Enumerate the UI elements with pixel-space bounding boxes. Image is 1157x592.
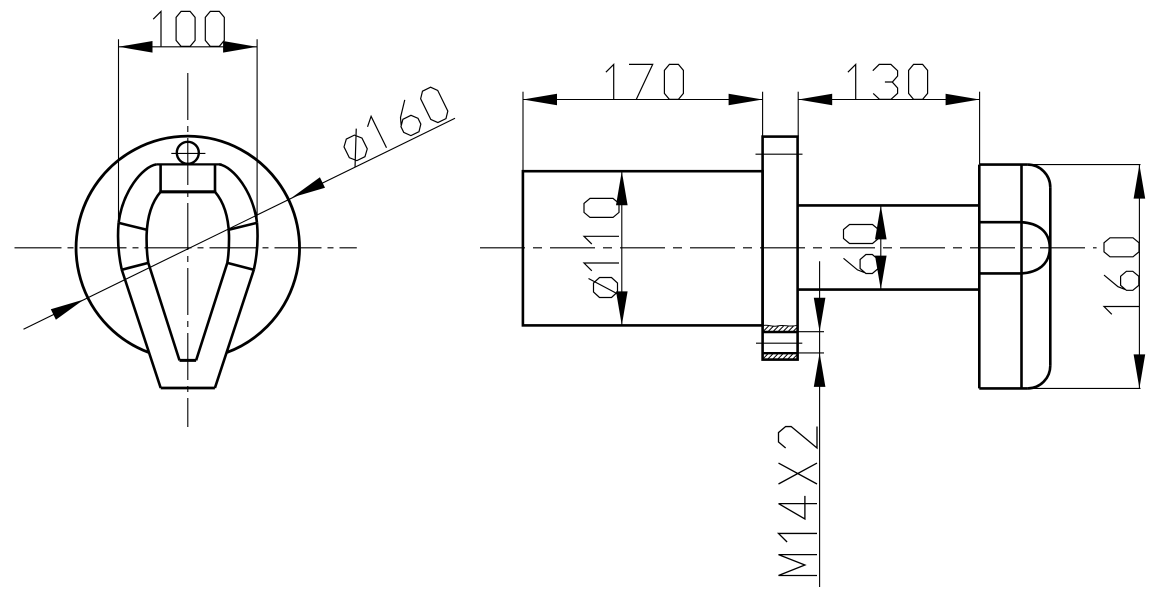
grip notch lower-left bbox=[122, 263, 148, 270]
end piece bottom-right corner arc bbox=[1028, 366, 1051, 389]
end piece top-right corner arc bbox=[1028, 165, 1051, 188]
dimension text 130 bbox=[848, 64, 856, 99]
dimension 60 bottom arrow bbox=[875, 256, 887, 290]
dimension 170 right extension line bbox=[762, 92, 764, 137]
dimension 100 left arrow bbox=[119, 41, 153, 53]
dimension text 60 bbox=[844, 255, 879, 274]
dimension 160 top arrow bbox=[1134, 165, 1146, 199]
grip slot end arc bbox=[1022, 222, 1050, 273]
dimension 170 right arrow bbox=[729, 94, 763, 106]
handle outer right lower side bbox=[215, 270, 254, 389]
dimension 170 line bbox=[523, 99, 763, 101]
grip notch lower-right bbox=[227, 263, 253, 270]
dimension 130 line bbox=[798, 99, 979, 101]
dimension 160 bottom extension line bbox=[1031, 387, 1141, 389]
dimension text 160 bbox=[1104, 307, 1139, 315]
circle Ø160 outline bbox=[76, 136, 299, 352]
thread hole bottom line bbox=[763, 352, 798, 354]
handle inner contour right bbox=[196, 192, 229, 361]
dimension 60 line bbox=[880, 205, 882, 289]
end piece inner line bbox=[1020, 165, 1023, 389]
dimension Ø160 arrow lower bbox=[51, 300, 84, 320]
end piece bottom line bbox=[979, 387, 1027, 390]
dimension 130 right extension line bbox=[979, 92, 981, 165]
small top circle bbox=[177, 142, 199, 164]
hatching above hole bbox=[758, 326, 804, 332]
grip notch upper-right bbox=[228, 223, 256, 230]
dimension 160 bottom arrow bbox=[1134, 354, 1146, 388]
dimension 100 right extension line bbox=[256, 39, 258, 221]
dimension 130 right arrow bbox=[946, 94, 980, 106]
dimension 100 left extension line bbox=[118, 39, 120, 221]
hole horizontal centerline bbox=[756, 342, 802, 344]
hatching below hole bbox=[758, 354, 803, 359]
grip notch upper-left bbox=[119, 223, 148, 230]
dimension 160 line bbox=[1138, 165, 1140, 389]
handle inner contour left bbox=[147, 192, 180, 361]
dimension 130 left arrow bbox=[798, 94, 832, 106]
dimension 160 top extension line bbox=[1031, 164, 1141, 166]
dimension text M14X2 bbox=[779, 555, 818, 576]
thread hole top line bbox=[763, 331, 798, 333]
dimension 100 line bbox=[119, 46, 258, 48]
dimension Ø110 top arrow bbox=[616, 171, 628, 205]
end piece top line bbox=[979, 163, 1027, 166]
dimension text 170 bbox=[606, 64, 614, 99]
front view vertical centerline bbox=[187, 73, 189, 427]
handle outer contour top flat bbox=[156, 163, 221, 165]
dimension text 100 bbox=[153, 11, 161, 46]
dimension 100 right arrow bbox=[223, 41, 257, 53]
dimension 170 left arrow bbox=[523, 94, 557, 106]
dimension M14X2 upper arrow bbox=[814, 298, 826, 332]
dimension Ø160 leader line bbox=[24, 118, 456, 329]
cap left side bbox=[159, 164, 162, 191]
cylinder Ø110 outline bbox=[523, 171, 763, 325]
shaft 60 top line bbox=[798, 204, 980, 207]
dimension 60 top arrow bbox=[875, 205, 887, 239]
flange outline bbox=[763, 137, 798, 360]
cap right side bbox=[214, 164, 217, 191]
dimension Ø110 bottom arrow bbox=[616, 291, 628, 325]
handle foot bottom bbox=[161, 387, 215, 390]
dimension M14X2 top extension line bbox=[798, 331, 824, 333]
end piece left face bbox=[978, 165, 981, 389]
handle outer contour right middle arc bbox=[254, 223, 258, 270]
handle outer left lower side bbox=[122, 270, 161, 389]
handle outer contour left upper arc bbox=[119, 164, 157, 222]
dimension 170 left extension line bbox=[522, 92, 524, 171]
flange bolt hole upper centerline bbox=[756, 153, 803, 155]
dimension Ø110 line bbox=[621, 171, 623, 325]
shaft 60 bottom line bbox=[798, 288, 980, 291]
break line (broken-out section) bbox=[763, 325, 798, 326]
dimension text Ø160 bbox=[339, 128, 372, 167]
handle outer contour right upper arc bbox=[219, 164, 257, 222]
dimension Ø160 arrow upper bbox=[292, 177, 325, 197]
side view horizontal centerline bbox=[480, 247, 1097, 249]
grip slot top line bbox=[979, 221, 1021, 224]
cap bottom line bbox=[159, 190, 216, 193]
end piece right edge bbox=[1049, 187, 1052, 365]
handle inner bottom flat bbox=[180, 359, 197, 362]
dimension M14X2 bottom extension line bbox=[798, 352, 824, 354]
small circle horizontal centerline bbox=[171, 152, 205, 154]
dimension text Ø110 bbox=[589, 278, 623, 298]
front view horizontal centerline bbox=[15, 247, 357, 249]
dimension M14X2 leader line bbox=[819, 261, 821, 587]
dimension 130 left extension line bbox=[797, 92, 799, 137]
grip slot bottom line bbox=[979, 272, 1021, 275]
dimension M14X2 lower arrow bbox=[814, 353, 826, 387]
handle outer contour left middle arc bbox=[118, 223, 122, 270]
